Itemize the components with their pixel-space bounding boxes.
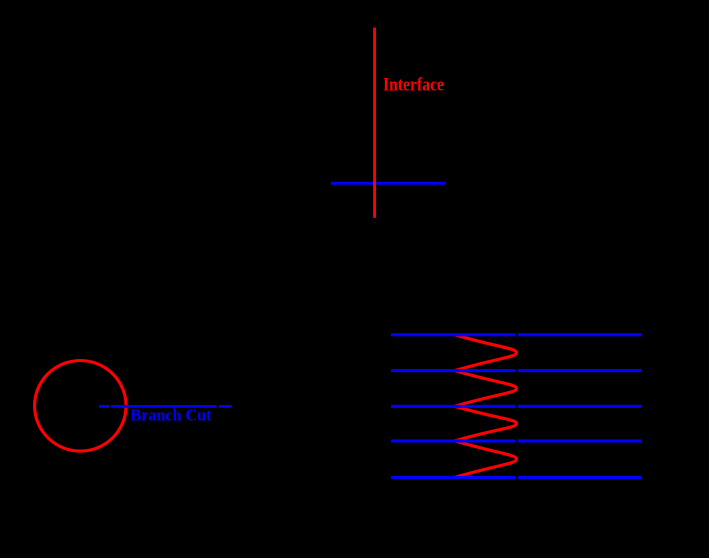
svg-text:Branch Cut: Branch Cut — [131, 406, 212, 425]
svg-text:Interface: Interface — [383, 76, 444, 96]
